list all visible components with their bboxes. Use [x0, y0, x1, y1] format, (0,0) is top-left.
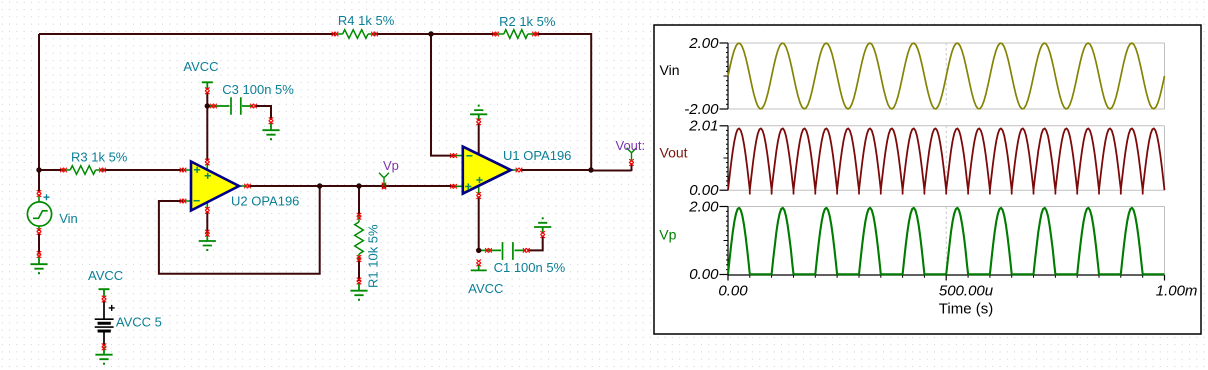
pin R1 bottom [357, 255, 362, 262]
capacitor C1 [480, 242, 526, 260]
svg-text:Vout: Vout [660, 145, 688, 161]
wire U2 feedback loop [159, 186, 320, 274]
svg-text:U2 OPA196: U2 OPA196 [231, 194, 299, 209]
wire U2 negative supply pin to ground [206, 211, 208, 233]
junction R1 tap [356, 183, 361, 188]
pin C3 left [210, 104, 217, 109]
wire ground rail to U1 positive supply pin (top) [478, 123, 480, 155]
op-amp U2 [183, 162, 247, 211]
dashed cursor 500u [945, 43, 947, 275]
capacitor C3 [209, 97, 254, 114]
wire Vp node down to R1 [358, 186, 360, 216]
wire U1 bottom supply pin to C1 node [478, 197, 480, 251]
ground below Vin [30, 256, 47, 274]
resistor R3 [64, 166, 103, 175]
pin U1 bottom supply [476, 192, 481, 199]
wire left vertical to Vin [38, 34, 40, 192]
svg-text:R2 1k 5%: R2 1k 5% [499, 14, 556, 29]
junction C1/U1 supply [476, 248, 481, 253]
svg-text:AVCC 5: AVCC 5 [116, 314, 162, 329]
pin U1 +in [450, 184, 457, 189]
resistor R4 [335, 30, 375, 39]
pin C3 right [250, 104, 257, 109]
wire U2 output to U1 non-inverting input [248, 185, 454, 187]
wire battery top [103, 300, 105, 319]
ground below battery [95, 347, 112, 365]
junction C3/AVCC [205, 103, 210, 108]
oscilloscope panel [654, 25, 1201, 334]
svg-text:-2.00: -2.00 [684, 101, 719, 118]
resistor R2 [496, 30, 536, 39]
pin R1 top [357, 213, 362, 220]
time axis [728, 275, 1165, 281]
svg-text:0.00: 0.00 [689, 266, 719, 283]
svg-text:R3 1k 5%: R3 1k 5% [71, 150, 128, 165]
pin Vp probe [382, 183, 387, 190]
pin U2 +in [180, 168, 187, 173]
trace Vin [728, 43, 1165, 109]
svg-text:Vin: Vin [59, 211, 78, 226]
power AVCC below C1 node (inverted T) [471, 264, 487, 270]
junction Vp probe [381, 183, 386, 188]
junction Vout node [588, 167, 593, 172]
pin R2 left [492, 32, 499, 37]
wire R3 to U2 non-inverting input [103, 169, 184, 171]
junction node A (R4/R2) [428, 31, 433, 36]
pin U2 -in [180, 199, 187, 204]
battery AVCC 5 [95, 305, 115, 331]
trace Vout [728, 128, 1165, 193]
wire Vin node to R3 [39, 169, 64, 171]
wire top net from Vin node to R4 [39, 33, 335, 35]
svg-text:500.00u: 500.00u [939, 283, 994, 300]
resistor R1 [355, 216, 364, 258]
pin R4 left [332, 32, 339, 37]
ground below U2 [199, 233, 216, 251]
pin Vout probe [629, 159, 634, 166]
svg-text:AVCC: AVCC [88, 268, 123, 283]
probe Vp symbol [379, 173, 389, 186]
pin C1 right [523, 248, 530, 253]
svg-text:AVCC: AVCC [468, 281, 503, 296]
svg-text:Vp: Vp [383, 158, 399, 173]
svg-text:Vout:: Vout: [616, 138, 646, 153]
wire Vin bottom to ground [38, 233, 40, 255]
plot Vout gridlines [728, 126, 1165, 190]
wire R1 bottom to ground [358, 259, 360, 282]
power AVCC rail above battery [99, 289, 110, 296]
ground right of C3 [262, 122, 279, 140]
pin R3 left [60, 168, 67, 173]
power AVCC rail above C3 [202, 82, 213, 89]
pin AVCC rail stem (C3) [205, 88, 210, 95]
plot Vin gridlines [728, 43, 1165, 109]
pin R2 right [532, 32, 539, 37]
svg-text:2.00: 2.00 [688, 35, 719, 52]
svg-text:Vp: Vp [659, 227, 676, 243]
pin U1 out [516, 168, 523, 173]
ground below R1 [350, 283, 367, 301]
svg-text:C1 100n 5%: C1 100n 5% [494, 260, 566, 275]
pin U1 -in [450, 153, 457, 158]
wire U1 output to Vout probe [520, 163, 632, 171]
pin Vin ground stem [37, 251, 42, 258]
junction U2 output/feedback [317, 183, 322, 188]
svg-text:AVCC: AVCC [183, 59, 218, 74]
pin U1 top supply [476, 119, 481, 126]
svg-text:2.00: 2.00 [688, 198, 719, 215]
pin R1 ground stem [357, 278, 362, 285]
plot Vout y-axis [720, 126, 729, 190]
trace Vp [728, 208, 1165, 274]
plot Vp y-axis [720, 207, 729, 276]
svg-text:1.00m: 1.00m [1156, 283, 1198, 300]
ground right of C1 (inverted) [534, 217, 551, 233]
pin C1 ground stem [540, 231, 545, 238]
ground above U1 (inverted) [470, 105, 487, 121]
svg-text:U1 OPA196: U1 OPA196 [503, 148, 571, 163]
svg-text:2.01: 2.01 [688, 118, 718, 135]
pin U2 top supply [205, 159, 210, 166]
op-amp U1 [454, 147, 519, 195]
pin battery top [102, 296, 107, 303]
wire C1 right to ground [528, 236, 543, 250]
pin R4 right [371, 32, 378, 37]
pin C3 ground stem [269, 117, 274, 124]
probe Vout symbol [627, 148, 637, 161]
pin Vin top [37, 190, 42, 197]
svg-text:R1 10k 5%: R1 10k 5% [366, 224, 381, 288]
pin U2 bottom supply [205, 207, 210, 214]
pin R3 right [99, 168, 106, 173]
pin U2 out [244, 184, 251, 189]
svg-text:C3 100n 5%: C3 100n 5% [222, 82, 294, 97]
wire C3 right to ground [255, 106, 271, 120]
pin battery bottom [102, 344, 107, 351]
plot Vp gridlines [728, 207, 1165, 275]
wire R2 right down to Vout node [536, 34, 592, 170]
pin Vin bottom [37, 228, 42, 235]
svg-text:Time (s): Time (s) [939, 301, 993, 318]
wire node A down to U1 inverting input [431, 34, 454, 156]
junction Vin/R3 [36, 167, 41, 172]
wire R4 to node A to R2 [375, 33, 496, 35]
voltage source Vin [27, 194, 51, 231]
wire AVCC rail to C3 node [206, 92, 208, 106]
plot Vin y-axis [720, 43, 729, 109]
wire C3 node down to U2 positive supply pin [206, 106, 208, 161]
wire battery bottom [103, 333, 105, 347]
svg-text:0.00: 0.00 [689, 182, 719, 199]
svg-text:Vin: Vin [660, 62, 680, 78]
pin C1 left [485, 248, 492, 253]
pin U2 ground stem [205, 230, 210, 237]
svg-text:R4 1k 5%: R4 1k 5% [338, 13, 395, 28]
pin AVCC stem below C1 [476, 260, 481, 267]
svg-text:0.00: 0.00 [718, 283, 748, 300]
